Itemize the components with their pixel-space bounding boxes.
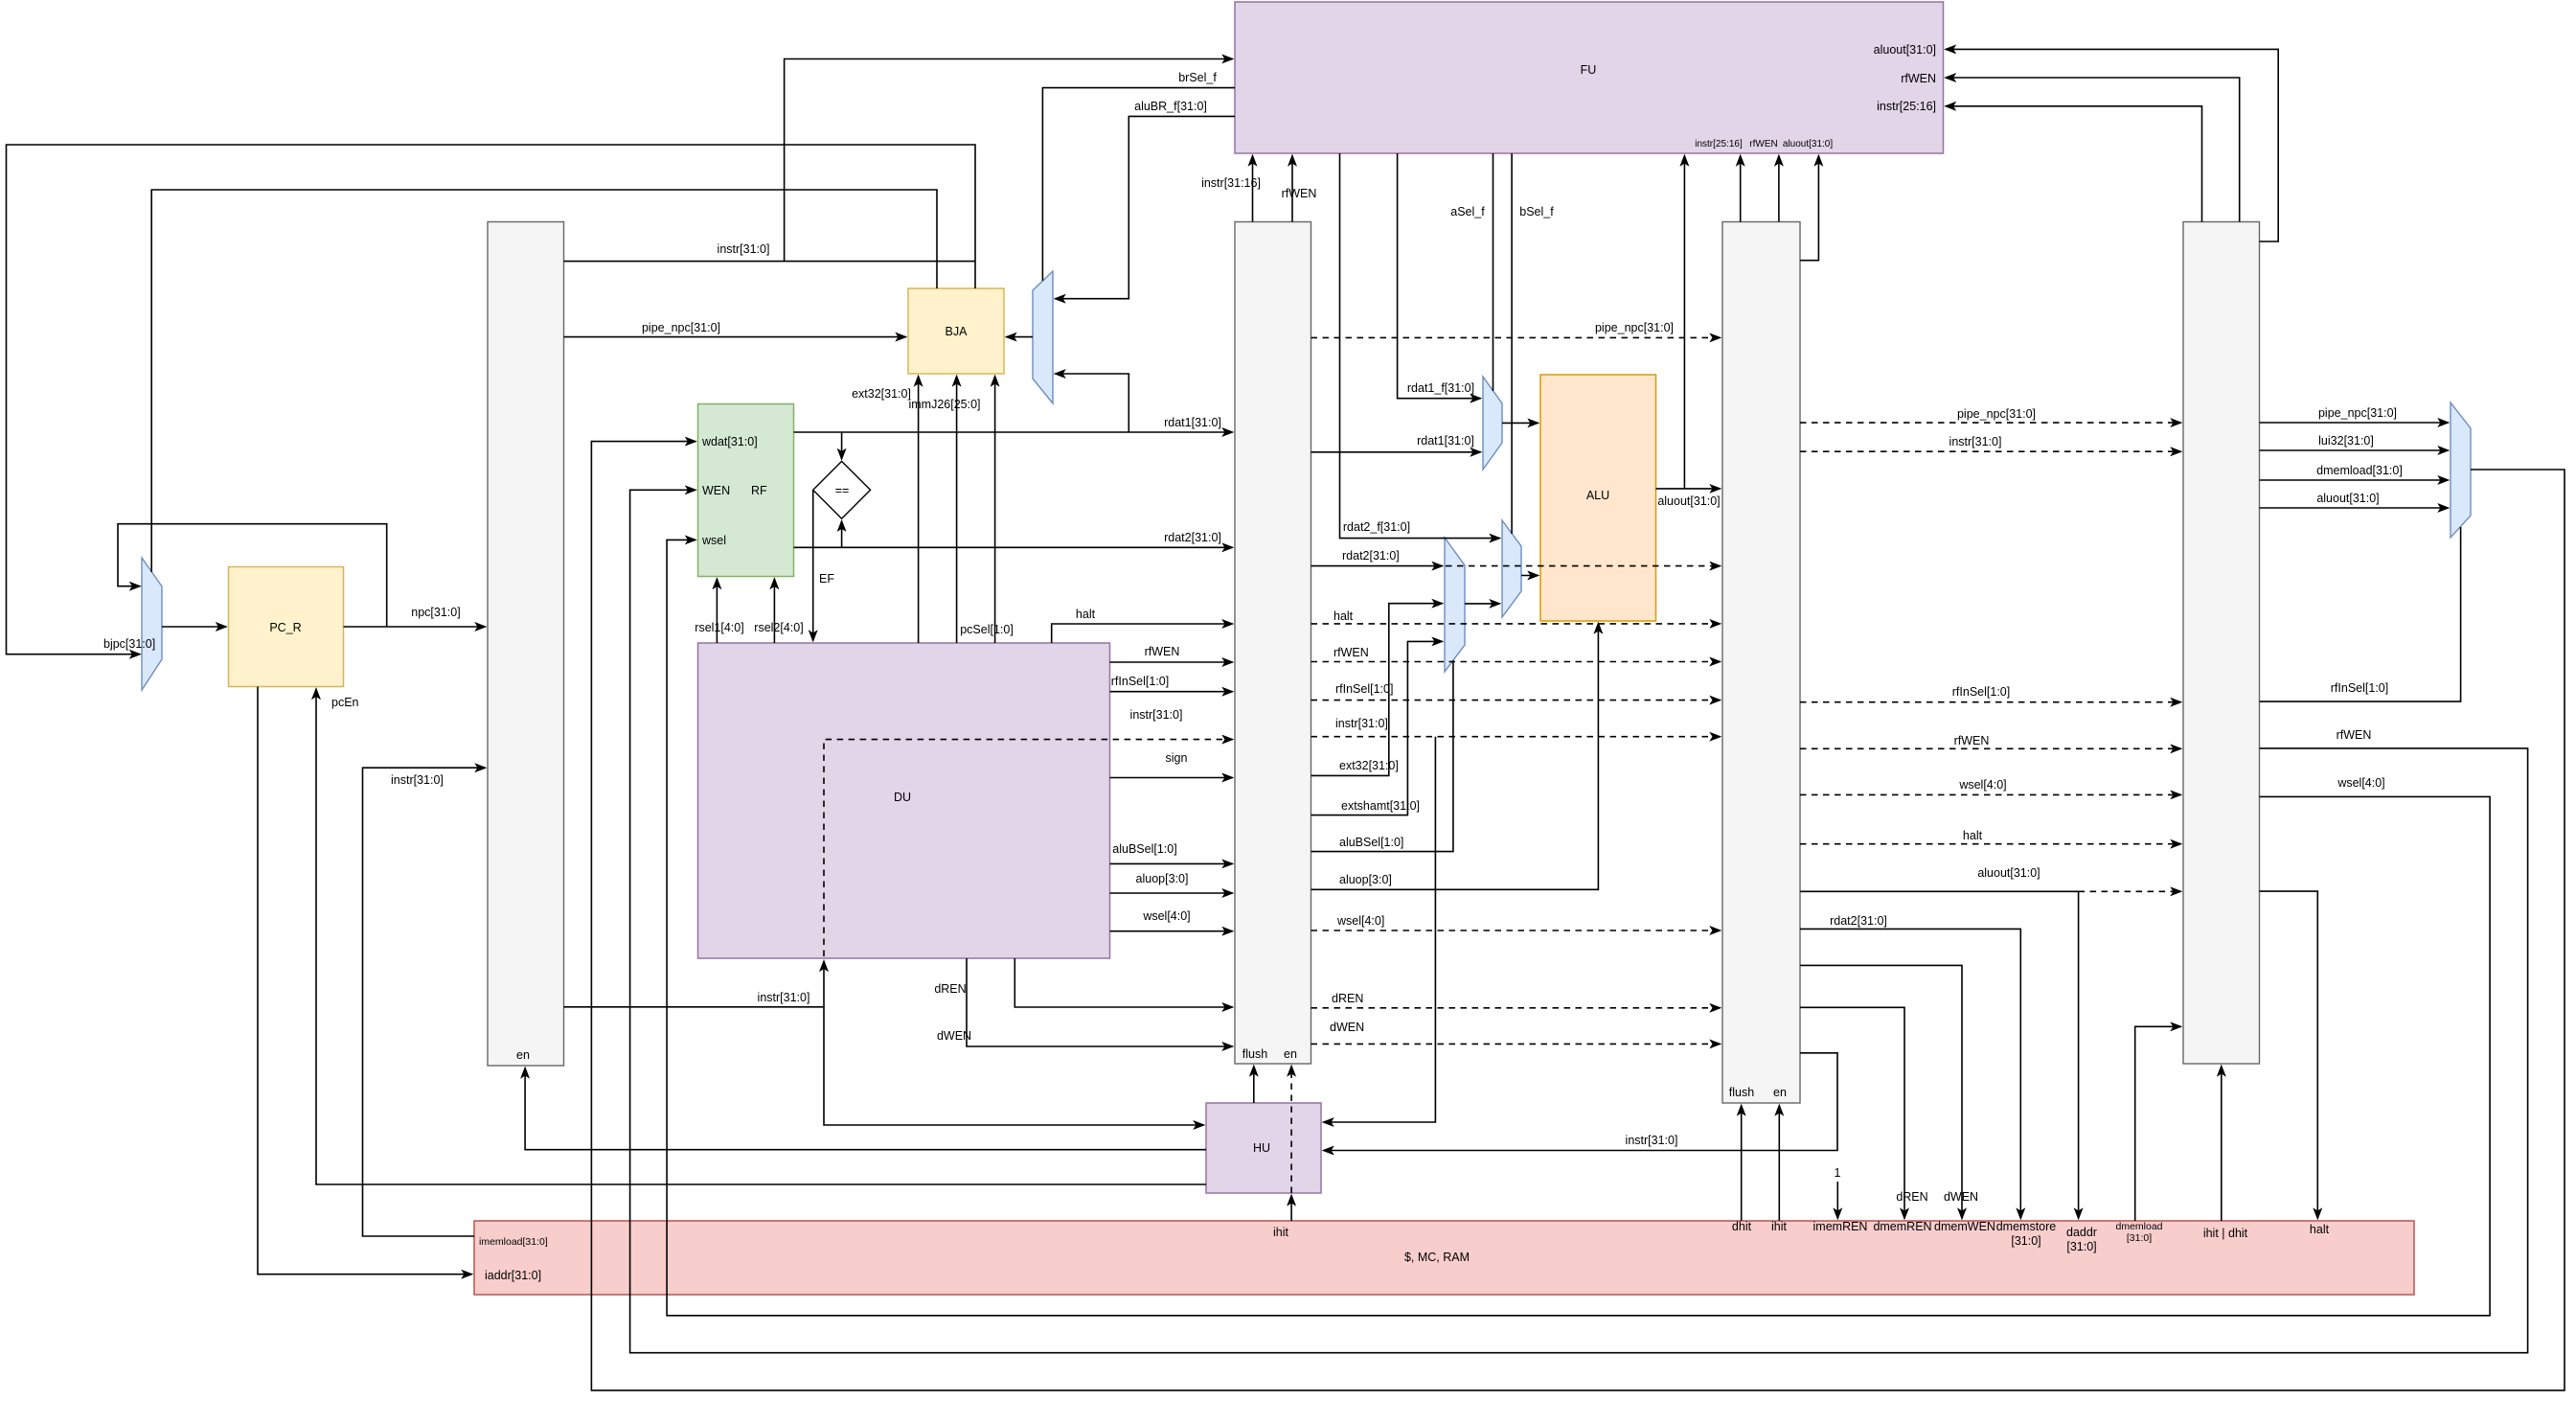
wire flush HU to ID/EX [1253,1067,1255,1104]
svg-text:aluout[31:0]: aluout[31:0] [2316,492,2379,505]
wire dmemload[31:0] MEM/WB to WB mux [2260,464,2449,480]
wire rdat2_f[31:0] FU to mux B [1340,153,1500,539]
svg-text:ihit | dhit: ihit | dhit [2203,1227,2248,1240]
wire rfInSel[1:0] EX/MEM to MEM/WB dashed [1800,685,2181,702]
wire sign DU to ID/EX [1110,751,1233,778]
svg-text:pipe_npc[31:0]: pipe_npc[31:0] [1595,321,1674,334]
svg-text:instr[25:16]: instr[25:16] [1695,139,1743,149]
wire mux B out to ALU [1521,575,1539,577]
svg-text:dmemWEN: dmemWEN [1934,1220,1995,1233]
svg-text:aluBSel[1:0]: aluBSel[1:0] [1112,842,1176,856]
wire mux A out to ALU [1502,422,1539,424]
wire rdat1 branch to comparator [841,432,843,459]
wire rsel1[4:0] DU to RF [695,579,743,643]
wire rsel2[4:0] DU to RF [754,579,803,643]
wire rfInSel[1:0] DU to ID/EX [1110,675,1233,692]
wire dhit memory to EX/MEM flush [1741,1106,1743,1222]
wire rdat1[31:0] ID/EX to mux A [1311,434,1481,452]
svg-text:rdat2[31:0]: rdat2[31:0] [1342,549,1400,563]
wire rfWEN DU to ID/EX [1110,645,1233,662]
wire bSel_f FU to mux B select [1512,153,1554,534]
svg-text:aluop[3:0]: aluop[3:0] [1339,873,1392,886]
wire instr[31:16] ID/EX to FU [1201,156,1261,222]
wire mux C out to mux B [1465,603,1500,605]
wire aluop[3:0] DU to ID/EX [1110,872,1233,893]
svg-text:dmemload: dmemload [2115,1221,2162,1232]
mux B-source select [1445,538,1465,672]
wire en HU to IF/ID [525,1068,1206,1150]
svg-text:rfWEN: rfWEN [1954,734,1990,747]
wire rfWEN ID/EX to EX/MEM dashed [1311,646,1721,662]
mux writeback source [2451,402,2471,538]
svg-text:ihit: ihit [1273,1226,1289,1239]
wire halt EX/MEM to MEM/WB dashed [1800,829,2181,844]
wire instr[31:0] ID/EX to EX/MEM dashed and HU [1311,717,1721,1122]
wire npc[31:0] PC_R to IF/ID [344,606,486,627]
svg-text:en: en [1773,1086,1787,1099]
wire ext32[31:0] ID/EX to mux C [1311,604,1443,776]
wire pipe_npc[31:0] MEM/WB to WB mux [2260,406,2449,423]
wire immJ26[25:0] DU to BJA [908,377,980,644]
svg-text:daddr: daddr [2066,1226,2097,1239]
svg-text:ext32[31:0]: ext32[31:0] [1339,759,1399,772]
mux BJA input [1033,271,1053,403]
svg-text:instr[31:0]: instr[31:0] [1130,708,1183,722]
wire EF diamond to DU [813,490,835,640]
svg-text:brSel_f: brSel_f [1178,71,1217,84]
wire rdat2 branch to comparator [841,521,843,548]
svg-text:rdat1[31:0]: rdat1[31:0] [1164,416,1221,429]
svg-text:instr[31:16]: instr[31:16] [1201,176,1261,190]
svg-text:rfInSel[1:0]: rfInSel[1:0] [2331,681,2388,695]
svg-text:aluop[3:0]: aluop[3:0] [1136,872,1189,885]
svg-text:dWEN: dWEN [937,1029,971,1043]
svg-text:pcSel[1:0]: pcSel[1:0] [960,623,1014,636]
svg-text:rdat2[31:0]: rdat2[31:0] [1164,531,1221,544]
svg-text:instr[31:0]: instr[31:0] [391,773,444,787]
wire rdat2[31:0] EX/MEM to dmemstore [1800,914,2020,1219]
svg-text:aluBSel[1:0]: aluBSel[1:0] [1339,836,1403,849]
wire aluout[31:0] MEM/WB to WB mux [2260,492,2449,508]
register PC_R [229,567,344,687]
svg-text:DU: DU [894,791,911,804]
svg-text:aluout[31:0]: aluout[31:0] [1874,43,1936,57]
svg-text:PC_R: PC_R [269,621,301,634]
svg-text:ihit: ihit [1771,1220,1788,1233]
branch jump address unit BJA [908,288,1004,374]
svg-text:en: en [516,1048,530,1062]
wire instr[31:0] EX/MEM to MEM/WB dashed [1800,435,2181,451]
wire instr[31:0] dashed through DU to ID/EX [824,708,1233,956]
wire dREN DU to ID/EX [934,958,1232,1007]
wire aluop[3:0] ID/EX to ALU [1311,624,1599,890]
wire instr[25:16] EX/MEM to FU [1740,156,1742,222]
wire halt MEM/WB to memory [2260,891,2318,1218]
wire rdat1_f[31:0] FU to mux A [1398,153,1481,399]
svg-text:rsel1[4:0]: rsel1[4:0] [695,621,743,634]
svg-text:rdat1[31:0]: rdat1[31:0] [1417,434,1474,448]
svg-text:rfInSel[1:0]: rfInSel[1:0] [1335,682,1393,696]
wire brSel_f FU to BJA mux select [1042,71,1235,281]
svg-text:WEN: WEN [702,484,730,497]
wire ext32[31:0] DU to BJA [852,377,919,644]
wire pipe_npc[31:0] ID/EX to EX/MEM dashed [1311,321,1721,337]
wire aluout[31:0] ALU to EX/MEM and FU [1656,156,1721,509]
svg-text:iaddr[31:0]: iaddr[31:0] [485,1269,541,1282]
svg-text:rsel2[4:0]: rsel2[4:0] [754,621,803,634]
svg-text:pipe_npc[31:0]: pipe_npc[31:0] [2318,406,2397,420]
svg-text:[31:0]: [31:0] [2127,1232,2152,1244]
svg-text:halt: halt [2310,1223,2330,1236]
svg-text:RF: RF [751,484,767,497]
svg-text:flush: flush [1242,1047,1267,1061]
mux ALU A-input [1483,377,1502,470]
comparator == diamond [813,461,871,518]
svg-text:aluout[31:0]: aluout[31:0] [1977,866,2040,880]
wire wsel[4:0] ID/EX to EX/MEM dashed [1311,914,1721,930]
wire dmemload[31:0] memory to MEM/WB [2135,1026,2181,1221]
wire pipe_npc[31:0] EX/MEM to MEM/WB dashed [1800,407,2181,423]
svg-text:halt: halt [1334,609,1354,623]
decode unit DU [698,643,1110,958]
svg-text:HU: HU [1253,1141,1270,1155]
svg-text:rdat2[31:0]: rdat2[31:0] [1830,914,1887,928]
svg-text:instr[25:16]: instr[25:16] [1877,100,1936,113]
wire dREN ID/EX to EX/MEM dashed [1311,992,1721,1008]
svg-text:dmemload[31:0]: dmemload[31:0] [2316,464,2403,477]
svg-text:rfWEN: rfWEN [1334,646,1369,659]
svg-text:bjpc[31:0]: bjpc[31:0] [103,637,155,651]
wire dWEN EX/MEM to memory [1800,965,1978,1218]
svg-text:rdat1_f[31:0]: rdat1_f[31:0] [1407,381,1474,395]
svg-text:wsel[4:0]: wsel[4:0] [1958,778,2006,792]
svg-text:rdat2_f[31:0]: rdat2_f[31:0] [1343,520,1410,534]
svg-text:halt: halt [1076,608,1096,621]
wire wsel[4:0] EX/MEM to MEM/WB dashed [1800,778,2181,794]
wire wsel[4:0] DU to ID/EX [1110,909,1233,931]
memory block $, MC, RAM [474,1220,2414,1295]
mux ALU B-input [1502,520,1521,617]
pipeline register EX/MEM [1722,222,1800,1104]
svg-text:instr[31:0]: instr[31:0] [1626,1134,1678,1147]
wire iaddr[31:0] PC_R to memory [258,687,472,1275]
wire ihit|dhit memory to MEM/WB [2221,1067,2223,1222]
wire extshamt[31:0] ID/EX to mux C [1311,641,1443,815]
svg-text:$, MC, RAM: $, MC, RAM [1404,1251,1470,1264]
wire constant 1 to imemREN [1835,1166,1841,1219]
svg-text:instr[31:0]: instr[31:0] [758,991,810,1004]
svg-text:pcEn: pcEn [331,696,359,709]
wire halt DU to ID/EX [1052,608,1233,643]
wire PC mux out [162,626,226,628]
wire instr[31:0] IF/ID to DU and HU [564,961,1204,1125]
wire rfInSel[1:0] ID/EX to EX/MEM dashed [1311,682,1721,700]
svg-text:dmemREN: dmemREN [1873,1220,1931,1233]
svg-text:rfWEN: rfWEN [1282,187,1317,200]
wire instr[31:0] EX/MEM to HU [1324,1053,1838,1151]
wire wdat WB mux loop to RF wdat [591,442,2565,1390]
wire aluBSel[1:0] DU to ID/EX [1110,842,1233,863]
svg-text:EF: EF [819,572,834,586]
svg-text:imemREN: imemREN [1813,1220,1868,1233]
svg-text:wdat[31:0]: wdat[31:0] [701,435,758,448]
wire rdat2[31:0] RF to ID/EX [794,531,1233,547]
wire bjpc[31:0] BJA to PC mux [7,145,976,655]
svg-text:halt: halt [1963,829,1983,842]
svg-text:rfInSel[1:0]: rfInSel[1:0] [1111,675,1169,688]
svg-text:pipe_npc[31:0]: pipe_npc[31:0] [1957,407,2036,421]
svg-text:dhit: dhit [1732,1220,1752,1233]
svg-text:en: en [1284,1047,1297,1061]
wire aluout[31:0] EX/MEM to MEM/WB and daddr [1800,866,2181,1219]
svg-text:instr[31:0]: instr[31:0] [1949,435,2002,448]
wire aluBSel[1:0] ID/EX to mux C select [1311,660,1453,852]
svg-text:ext32[31:0]: ext32[31:0] [852,387,911,401]
svg-text:FU: FU [1581,63,1597,77]
svg-text:aluBR_f[31:0]: aluBR_f[31:0] [1134,100,1207,113]
svg-text:aluout[31:0]: aluout[31:0] [1783,139,1833,149]
svg-text:instr[31:0]: instr[31:0] [1335,717,1388,730]
svg-text:dWEN: dWEN [1330,1021,1364,1034]
svg-text:flush: flush [1729,1086,1754,1099]
wire pipe_npc[31:0] IF/ID to BJA [564,321,906,337]
svg-text:BJA: BJA [946,325,969,338]
wire aluout[31:0] MEM/WB to FU [1946,49,2278,241]
svg-text:[31:0]: [31:0] [2066,1240,2096,1253]
svg-text:aSel_f: aSel_f [1450,205,1485,218]
svg-text:pipe_npc[31:0]: pipe_npc[31:0] [642,321,720,334]
register file RF [698,404,794,577]
wire BJA mux out [1007,336,1034,338]
pipeline register MEM/WB [2183,222,2260,1065]
svg-text:instr[31:0]: instr[31:0] [718,242,770,256]
wire rfWEN MEM/WB to FU [1946,78,2240,222]
wire rdat1 branch to BJA mux [1056,374,1129,432]
svg-text:rfInSel[1:0]: rfInSel[1:0] [1952,685,2010,699]
svg-text:wsel[4:0]: wsel[4:0] [1336,914,1384,928]
svg-text:wsel[4:0]: wsel[4:0] [2337,776,2384,790]
wire pcSel[1:0] DU to BJA [960,377,1014,644]
svg-text:wsel[4:0]: wsel[4:0] [1142,909,1190,923]
wire halt ID/EX to EX/MEM dashed [1311,609,1721,624]
svg-text:rfWEN: rfWEN [1901,72,1936,85]
svg-text:dWEN: dWEN [1944,1190,1978,1204]
svg-text:wsel: wsel [701,534,726,547]
wire aluBR_f[31:0] FU to BJA mux [1056,100,1236,299]
wire ihit memory to EX/MEM en [1778,1106,1780,1222]
svg-text:rfWEN: rfWEN [2337,728,2372,742]
wire pcEn HU to PC_R [316,689,1206,1184]
svg-text:sign: sign [1166,751,1188,765]
svg-text:dmemstore: dmemstore [1996,1220,2057,1233]
mux PC source [142,558,162,690]
svg-text:ALU: ALU [1586,489,1609,502]
wire wsel[4:0] MEM/WB loop to RF wsel [667,540,2490,1315]
wire dWEN ID/EX to EX/MEM dashed [1311,1021,1721,1044]
wire aluout EX/MEM right edge to FU [1800,156,1818,261]
wire ihit memory through HU to ID/EX en [1273,1067,1291,1240]
svg-text:rfWEN: rfWEN [1749,139,1777,149]
wire rfInSel[1:0] MEM/WB to WB mux select [2260,527,2461,701]
svg-text:dREN: dREN [934,982,966,996]
wire instr[25:16] MEM/WB to FU [1946,106,2202,222]
wire rdat1[31:0] RF to ID/EX [794,416,1233,432]
pipeline register ID/EX [1235,222,1311,1065]
svg-text:lui32[31:0]: lui32[31:0] [2318,434,2374,448]
wire rfWEN ID/EX to FU [1282,156,1317,222]
wire dWEN DU to ID/EX [937,958,1233,1046]
svg-text:bSel_f: bSel_f [1519,205,1554,218]
wire aSel_f FU to mux A select [1450,153,1493,391]
wire dREN EX/MEM to memory [1800,1007,1928,1218]
wire lui32[31:0] MEM/WB to WB mux [2260,434,2449,450]
wire brSel to PC mux select [151,190,937,572]
svg-text:aluout[31:0]: aluout[31:0] [1657,494,1720,508]
wire rfWEN MEM/WB loop to RF WEN [630,490,2528,1352]
svg-text:immJ26[25:0]: immJ26[25:0] [908,398,980,411]
wire rfWEN EX/MEM to FU [1778,156,1780,222]
forwarding unit FU [1235,2,1944,153]
wire npc feedback loop [118,524,387,627]
svg-text:1: 1 [1835,1166,1841,1180]
wire rfWEN EX/MEM to MEM/WB dashed [1800,734,2181,748]
svg-text:==: == [835,484,850,497]
svg-text:extshamt[31:0]: extshamt[31:0] [1341,799,1420,813]
svg-text:dREN: dREN [1332,992,1363,1005]
arithmetic logic unit ALU [1540,375,1656,621]
svg-text:rfWEN: rfWEN [1145,645,1180,658]
hazard unit HU [1206,1103,1321,1193]
pipeline register IF/ID [488,222,564,1067]
wire rdat2[31:0] ID/EX to mux C and EX/MEM [1311,549,1721,566]
svg-text:[31:0]: [31:0] [2011,1234,2040,1248]
wire imemload[31:0] memory to IF/ID [363,768,486,1236]
svg-text:dREN: dREN [1896,1190,1927,1204]
wire instr[31:0] IF/ID to BJA and FU [564,59,1233,262]
svg-text:npc[31:0]: npc[31:0] [411,606,460,619]
svg-text:imemload[31:0]: imemload[31:0] [479,1236,548,1248]
